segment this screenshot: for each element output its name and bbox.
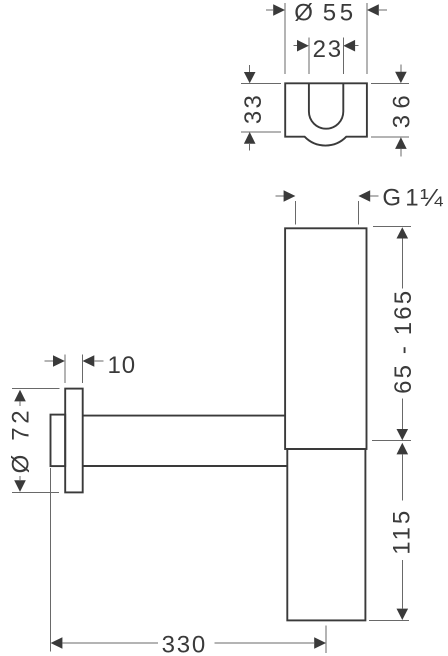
dim 23 [294,36,359,74]
svg-text:33: 33 [240,95,267,124]
bracket U slot [309,83,343,128]
svg-text:10: 10 [108,352,136,379]
wall stub [51,415,66,467]
dim 115 [369,443,415,621]
horizontal pipe [83,416,288,466]
dim Ø72 [8,389,60,493]
wall bracket outline [285,83,367,145]
svg-text:G 1: G 1 [382,185,418,212]
svg-text:115: 115 [388,511,415,555]
dim 33 [240,65,281,150]
svg-text:65 - 165: 65 - 165 [390,291,417,394]
main pipe upper section [285,228,366,449]
dim G 1 1/4 [275,185,444,225]
svg-text:23: 23 [313,36,341,63]
svg-text:330: 330 [162,631,206,656]
svg-text:¼: ¼ [420,185,444,212]
bottle lower section [287,449,365,620]
svg-text:36: 36 [388,95,415,128]
dim Ø55 [266,0,387,74]
wall flange [65,389,83,493]
dim 65 - 165 [372,227,417,441]
dim 10 [45,352,135,383]
svg-text:Ø 72: Ø 72 [8,410,35,473]
svg-text:Ø 55: Ø 55 [294,0,353,27]
dim 36 [371,64,416,156]
dim 330 [50,468,326,656]
